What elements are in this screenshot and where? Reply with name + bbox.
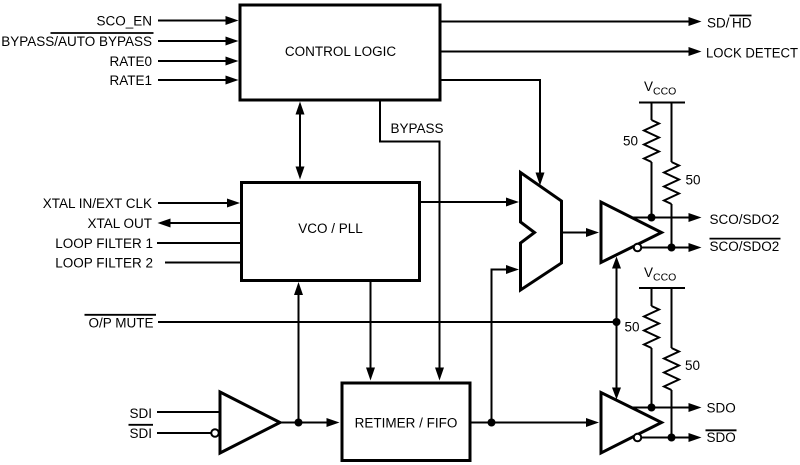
output SDO (inverted) [641,430,736,445]
svg-text:SDO: SDO [707,430,736,445]
svg-text:SDO: SDO [707,400,736,415]
svg-text:SDI: SDI [129,426,152,441]
input RATE1 [109,73,238,88]
output SCO/SDO2 (inverted) [641,239,780,254]
svg-text:HD: HD [732,16,752,31]
wire control logic to mux select [440,80,545,186]
resistor R4 50 [664,288,700,438]
output buffer U7 (SDO) [601,393,662,454]
retimer / fifo box U4 [342,383,470,461]
svg-text:SCO/SDO2: SCO/SDO2 [710,212,780,227]
svg-text:O/P MUTE: O/P MUTE [88,315,153,330]
resistor R2 50 [664,103,701,248]
svg-text:VCCO: VCCO [644,79,676,98]
svg-text:50: 50 [685,173,700,188]
input RATE0 [109,54,238,69]
mux U5 [521,173,562,291]
wire SDI node to VCO/PLL [294,282,303,423]
svg-text:SD/: SD/ [707,16,730,31]
node retimer output junction [488,419,496,427]
svg-text:SCO_EN: SCO_EN [96,13,152,28]
output LOCK DETECT [440,46,798,61]
input XTAL IN/EXT CLK [43,196,240,211]
svg-text:50: 50 [623,134,638,149]
node O/P MUTE junction [613,318,621,326]
svg-text:LOOP FILTER 1: LOOP FILTER 1 [55,236,153,251]
resistor R3 50 [624,288,659,408]
output SDO [632,400,736,415]
svg-text:BYPASS/AUTO BYPASS: BYPASS/AUTO BYPASS [1,34,152,49]
output SCO/SDO2 [632,212,779,227]
svg-text:LOOP FILTER 2: LOOP FILTER 2 [55,255,153,270]
svg-text:RATE1: RATE1 [109,73,152,88]
wire O/P MUTE net [158,321,617,323]
wire retimer junction to mux data input [492,265,520,423]
svg-text:SDI: SDI [129,406,152,421]
wire control logic to VCO/PLL (bidirectional) [296,102,305,180]
svg-text:CONTROL LOGIC: CONTROL LOGIC [285,44,397,59]
svg-text:XTAL OUT: XTAL OUT [87,216,152,231]
control logic box U1 [240,5,440,100]
svg-text:LOCK DETECT: LOCK DETECT [706,46,798,61]
input LOOP FILTER 2 [55,255,240,270]
svg-text:VCO / PLL: VCO / PLL [298,221,363,236]
svg-text:RATE0: RATE0 [109,54,152,69]
wire BYPASS net [380,101,444,381]
svg-text:XTAL IN/EXT CLK: XTAL IN/EXT CLK [43,196,152,211]
output SD/HD [440,16,752,31]
resistor R1 50 [623,103,659,218]
svg-text:BYPASS: BYPASS [391,121,444,136]
wire retimer to SDO buffer [472,418,600,427]
wire input buffer to retimer [280,418,340,427]
input SDI [129,406,218,421]
svg-text:50: 50 [685,358,700,373]
O/P MUTE label [85,315,157,331]
input LOOP FILTER 1 [55,236,240,251]
input BYPASS/AUTO BYPASS [1,33,238,49]
VCO/PLL box U2 [242,183,420,281]
node SDI junction [295,419,303,427]
svg-text:RETIMER / FIFO: RETIMER / FIFO [355,415,458,430]
input SCO_EN [96,13,238,28]
svg-text:50: 50 [624,320,639,335]
input buffer U3 [211,392,280,453]
output XTAL OUT [87,216,240,231]
power VCCO (lower) [639,265,685,288]
wire mute to output buffers (double arrow) [612,257,621,400]
wire VCO/PLL to mux data input [421,198,519,207]
wire mux to SCO buffer [562,228,600,237]
svg-text:SCO/SDO2: SCO/SDO2 [710,239,780,254]
wire VCO/PLL to retimer [366,282,375,381]
input SDI (inverted) [129,425,212,441]
svg-text:VCCO: VCCO [644,265,676,284]
output buffer U6 (SCO/SDO2) [601,202,662,263]
power VCCO (upper) [639,79,685,103]
